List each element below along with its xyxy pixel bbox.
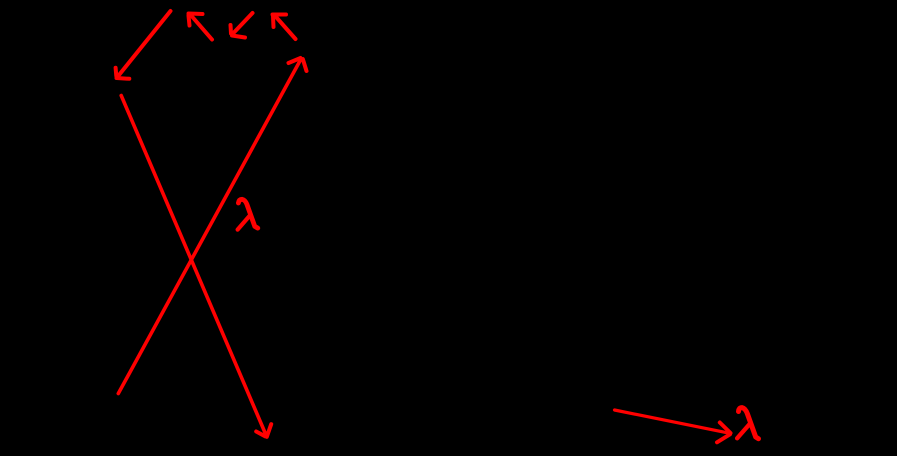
arrow A2: short arrow pointing up-left (top-middle-left): [189, 14, 213, 40]
arrow A6: long crossing arrow pointing up-right (X stroke 2): [118, 58, 306, 394]
arrow A4: short arrow pointing up-left (top-right): [273, 15, 296, 40]
lambda L2: red λ label at bottom-right: [737, 408, 758, 439]
arrow A3: short arrow pointing down-left (top-middle): [231, 13, 253, 38]
arrow A5: long crossing arrow pointing down-right (X stroke 1): [121, 96, 271, 437]
arrow A1: long arrow pointing down-left (top-left): [116, 11, 171, 79]
arrow A7: bottom-right arrow pointing right: [615, 410, 731, 442]
lambda L1: red λ label near X crossing: [238, 199, 258, 229]
